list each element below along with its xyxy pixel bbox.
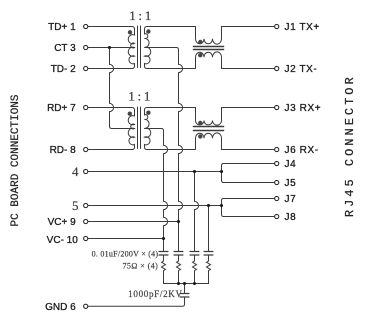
- choke L2 core: [193, 127, 223, 131]
- wire common rail: [164, 283, 209, 285]
- transformer T1 primary phase dot: [128, 30, 132, 34]
- choke L2 bottom phase dot: [198, 134, 202, 138]
- junction VC+ / branch B: [177, 220, 180, 223]
- svg-text:VC+ 9: VC+ 9: [48, 217, 77, 228]
- svg-text:5: 5: [72, 198, 79, 213]
- resistor R3 75 ohm: [193, 261, 197, 284]
- transformer T1 primary winding: [88, 27, 135, 69]
- capacitor C5 1000pF/2KV stem and GND wire: [88, 284, 185, 307]
- svg-text:TD+ 1: TD+ 1: [48, 22, 76, 33]
- choke L1 core: [193, 47, 223, 50]
- node J7 terminal: [275, 196, 279, 200]
- svg-text:J5: J5: [285, 178, 297, 189]
- transformer T1 secondary winding: [145, 27, 196, 69]
- node J1 terminal: [275, 24, 279, 28]
- svg-text:GND 6: GND 6: [45, 302, 76, 313]
- node RD+ pin 7 terminal: [84, 105, 88, 109]
- wire branch A vertical with hops: [164, 132, 168, 252]
- capacitor C2 0.01uF/200V: [174, 252, 183, 256]
- node GND pin 6 terminal: [84, 304, 88, 308]
- node J6 terminal: [275, 147, 279, 151]
- choke L1 bottom phase dot: [198, 53, 202, 57]
- node J3 terminal: [275, 105, 279, 109]
- common-mode choke L1 bottom winding: [196, 52, 275, 69]
- resistor R4 75 ohm: [207, 261, 211, 284]
- node pin 4 terminal: [84, 169, 88, 173]
- transformer T2 secondary phase dot: [146, 111, 150, 115]
- svg-text:1:1: 1:1: [128, 89, 153, 104]
- svg-text:0. 01uF/200V × (4): 0. 01uF/200V × (4): [92, 250, 159, 259]
- wire branch D vertical: [208, 206, 210, 252]
- wire VC- row to branch A: [88, 238, 164, 240]
- choke L1 top phase dot: [198, 40, 202, 44]
- capacitor C4 0.01uF/200V: [204, 252, 213, 256]
- wire VC+ row to branch B: [88, 221, 179, 223]
- svg-text:J6 RX-: J6 RX-: [285, 145, 319, 156]
- junction rail / branch C: [193, 282, 196, 285]
- svg-text:PC BOARD CONNECTIONS: PC BOARD CONNECTIONS: [10, 94, 22, 226]
- svg-text:J1 TX+: J1 TX+: [285, 22, 320, 33]
- node J8 terminal: [275, 214, 279, 218]
- wire CT branch down to T2 center tap with hops: [110, 48, 135, 129]
- junction rail / C5 stem: [183, 282, 186, 285]
- transformer T2 core: [138, 107, 141, 149]
- svg-text:4: 4: [72, 164, 79, 179]
- resistor R2 75 ohm: [177, 261, 181, 284]
- svg-text:1000pF/2KV: 1000pF/2KV: [128, 289, 183, 299]
- wire J7/J8 bracket: [222, 199, 275, 217]
- wire J4/J5 bracket: [222, 164, 275, 183]
- svg-text:1:1: 1:1: [129, 8, 154, 23]
- wire branch B vertical with hops: [179, 51, 183, 251]
- common-mode choke L2 bottom winding: [196, 133, 275, 150]
- common-mode choke L1 top winding: [196, 27, 275, 45]
- junction branch C / pin4: [193, 170, 196, 173]
- node TD+ pin 1 terminal: [84, 24, 88, 28]
- node J2 terminal: [275, 66, 279, 70]
- wire CT center tap: [88, 47, 135, 49]
- svg-text:RD+ 7: RD+ 7: [47, 103, 76, 114]
- node VC- pin 10 terminal: [84, 236, 88, 240]
- common-mode choke L2 top winding: [196, 108, 275, 126]
- resistor R1 75 ohm: [162, 261, 166, 284]
- transformer T1 core: [138, 26, 141, 68]
- junction CT junction: [108, 46, 111, 49]
- svg-text:J2 TX-: J2 TX-: [285, 64, 318, 75]
- wire branch C vertical with hop: [195, 172, 199, 252]
- wire T2 secondary center tap to branch A: [145, 129, 164, 132]
- svg-text:J8: J8: [285, 212, 297, 223]
- node pin 5 terminal: [84, 203, 88, 207]
- node TD- pin 2 terminal: [84, 66, 88, 70]
- transformer T1 secondary phase dot: [146, 29, 150, 33]
- svg-text:75Ω × (4): 75Ω × (4): [122, 262, 158, 271]
- svg-text:J3 RX+: J3 RX+: [285, 103, 322, 114]
- node CT pin 3 terminal: [84, 45, 88, 49]
- node RD- pin 8 terminal: [84, 147, 88, 151]
- svg-text:RD- 8: RD- 8: [50, 145, 77, 156]
- node J4 terminal: [275, 161, 279, 165]
- node J5 terminal: [275, 180, 279, 184]
- capacitor C1 0.01uF/200V: [159, 252, 168, 256]
- transformer T2 primary phase dot: [128, 112, 132, 116]
- node VC+ pin 9 terminal: [84, 219, 88, 223]
- choke L2 top phase dot: [198, 121, 202, 125]
- junction bracket / pin5: [220, 204, 223, 207]
- svg-text:CT 3: CT 3: [54, 43, 76, 54]
- transformer T2 primary winding: [88, 108, 135, 150]
- wire pin 5 row: [88, 205, 222, 207]
- capacitor C5 1000pF/2KV plates: [180, 294, 189, 298]
- capacitor C3 0.01uF/200V: [190, 252, 199, 256]
- wire pin 4 row: [88, 171, 222, 173]
- svg-text:TD- 2: TD- 2: [51, 64, 76, 75]
- transformer T2 secondary winding: [145, 108, 196, 150]
- svg-text:J4: J4: [285, 159, 297, 170]
- junction bracket / pin4: [220, 170, 223, 173]
- svg-text:J7: J7: [285, 194, 297, 205]
- junction rail / branch B: [177, 282, 180, 285]
- wire T1 secondary center tap to branch B: [145, 48, 179, 52]
- svg-text:VC- 10: VC- 10: [47, 235, 79, 246]
- junction VC- / branch A: [162, 237, 165, 240]
- junction branch D / pin5: [207, 204, 210, 207]
- svg-text:RJ45 CONNECTOR: RJ45 CONNECTOR: [343, 74, 357, 217]
